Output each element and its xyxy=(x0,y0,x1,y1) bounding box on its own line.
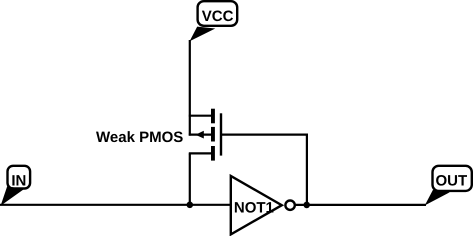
svg-text:IN: IN xyxy=(11,172,26,189)
svg-text:NOT1: NOT1 xyxy=(234,199,274,216)
net flag OUT tail xyxy=(425,190,450,206)
wire source stub xyxy=(189,115,213,117)
net flag VCC tail xyxy=(190,27,216,42)
net flag IN tail xyxy=(1,186,24,206)
wire VCC to PMOS source xyxy=(189,40,191,136)
net flag OUT box xyxy=(433,166,472,191)
junction dot input node xyxy=(187,202,194,209)
wire IN main horizontal xyxy=(0,204,230,206)
svg-text:VCC: VCC xyxy=(202,8,234,25)
net flag VCC box xyxy=(198,1,238,26)
transistor M1 channel bar bulk xyxy=(211,127,215,142)
wire inverter output to OUT xyxy=(296,204,427,206)
transistor M1 gate plate xyxy=(220,113,222,155)
net flag IN box xyxy=(8,166,31,190)
op-amp NOT1 inverter triangle xyxy=(231,176,282,234)
transistor M1 channel bar drain xyxy=(211,146,215,161)
junction dot output node xyxy=(303,202,310,209)
wire feedback vertical xyxy=(306,135,308,205)
wire drain down to input net xyxy=(189,153,191,204)
inverter output bubble xyxy=(285,201,294,210)
transistor M1 channel bar source xyxy=(211,109,215,124)
wire bulk stub xyxy=(189,134,213,136)
transistor M1 bulk arrow (PMOS) xyxy=(195,131,203,139)
svg-text:Weak PMOS: Weak PMOS xyxy=(96,129,183,146)
wire gate to feedback xyxy=(222,134,308,136)
svg-text:OUT: OUT xyxy=(435,172,467,189)
wire drain stub xyxy=(189,152,213,154)
